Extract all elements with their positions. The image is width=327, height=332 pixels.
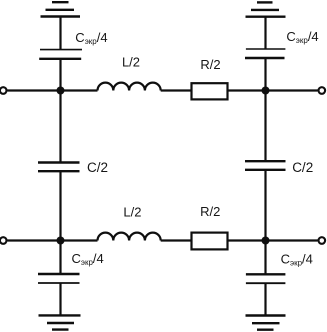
wire (bottom-left terminal to node)	[8, 239, 61, 241]
svg-text:Сэкр/4: Сэкр/4	[72, 251, 104, 267]
capacitor Cэкр/4 (top-right)	[245, 49, 285, 58]
wire (top-left node to inductor)	[61, 89, 98, 91]
node (bottom-right junction)	[262, 237, 270, 245]
svg-text:L/2: L/2	[122, 55, 140, 70]
terminal (port, top-left)	[0, 87, 7, 94]
capacitor Cэкр/4 (bottom-right)	[246, 274, 286, 283]
inductor L/2 (bottom)	[98, 233, 161, 241]
wire (bottom-left node to Cэкр/4)	[59, 241, 61, 275]
svg-text:C/2: C/2	[87, 160, 108, 175]
capacitor Cэкр/4 (bottom-left)	[38, 274, 80, 283]
wire (Cэкр/4 to top-right node)	[264, 58, 266, 91]
ground (bottom-right)	[246, 316, 286, 330]
wire (top-left node to C/2)	[59, 91, 61, 163]
wire (C/2 to bottom-left node)	[59, 171, 61, 240]
resistor R/2 (top)	[192, 83, 228, 99]
svg-text:R/2: R/2	[200, 57, 220, 72]
wire (top-right ground to Cэкр/4 top plate)	[264, 17, 266, 49]
ground (bottom-left)	[39, 315, 81, 329]
wire (bottom-right node to terminal)	[266, 239, 318, 241]
svg-text:C/2: C/2	[292, 160, 313, 175]
wire (inductor to resistor, top)	[161, 89, 192, 91]
wire (top-right node to terminal)	[266, 89, 318, 91]
svg-text:L/2: L/2	[123, 204, 141, 219]
inductor L/2 (top)	[98, 83, 161, 91]
node (top-right junction)	[262, 87, 270, 95]
node (top-left junction)	[57, 87, 65, 95]
wire (bottom-left node to inductor)	[61, 239, 98, 241]
capacitor Cэкр/4 (top-left)	[39, 50, 82, 59]
wire (top-left terminal to node)	[8, 89, 61, 91]
svg-text:Сэкр/4: Сэкр/4	[281, 252, 313, 268]
wire (resistor to top-right node)	[228, 89, 266, 91]
ground (top-left, inverted)	[41, 2, 81, 16]
terminal (port, bottom-right)	[319, 237, 326, 244]
svg-text:Сэкр/4: Сэкр/4	[286, 29, 318, 45]
wire (top-left ground to Cэкр/4 top plate)	[59, 17, 61, 50]
ground (top-right, inverted)	[246, 2, 286, 16]
node (bottom-left junction)	[57, 237, 65, 245]
wire (bottom-right node to Cэкр/4)	[264, 241, 266, 275]
capacitor C/2 (right)	[245, 161, 286, 170]
wire (Cэкр/4 to bottom-right ground)	[264, 283, 266, 315]
resistor R/2 (bottom)	[192, 233, 228, 250]
svg-text:R/2: R/2	[200, 204, 220, 219]
wire (Cэкр/4 to bottom-left ground)	[59, 283, 61, 315]
svg-text:Сэкр/4: Сэкр/4	[75, 30, 107, 46]
wire (inductor to resistor, bottom)	[161, 239, 192, 241]
terminal (port, bottom-left)	[0, 237, 7, 244]
wire (Cэкр/4 to top-left node)	[59, 59, 61, 91]
capacitor C/2 (left)	[38, 163, 80, 172]
terminal (port, top-right)	[319, 87, 326, 94]
wire (C/2 to bottom-right node)	[264, 170, 266, 241]
wire (resistor to bottom-right node)	[228, 239, 266, 241]
wire (top-right node to C/2)	[264, 91, 266, 162]
